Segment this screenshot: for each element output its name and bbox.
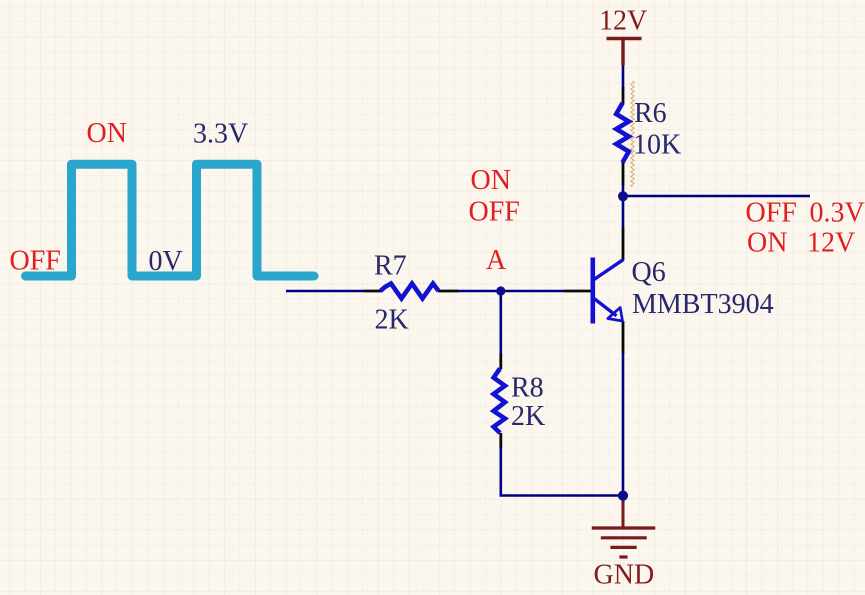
svg-text:OFF: OFF (746, 198, 797, 229)
svg-text:12V: 12V (599, 6, 647, 37)
svg-text:OFF: OFF (469, 197, 520, 228)
svg-text:ON: ON (747, 228, 787, 259)
svg-text:2K: 2K (375, 305, 409, 336)
svg-text:R6: R6 (634, 98, 667, 129)
svg-text:ON: ON (87, 118, 127, 149)
svg-text:0V: 0V (149, 246, 183, 277)
svg-text:R7: R7 (374, 251, 407, 282)
svg-text:Q6: Q6 (632, 257, 666, 288)
svg-text:0.3V: 0.3V (810, 198, 865, 229)
svg-text:GND: GND (594, 560, 655, 591)
svg-text:ON: ON (471, 165, 511, 196)
svg-text:R8: R8 (511, 372, 544, 403)
svg-text:2K: 2K (511, 401, 545, 432)
svg-text:10K: 10K (633, 130, 681, 161)
svg-text:MMBT3904: MMBT3904 (632, 289, 774, 320)
svg-text:3.3V: 3.3V (193, 119, 248, 150)
svg-text:OFF: OFF (10, 246, 61, 277)
svg-text:12V: 12V (807, 228, 855, 259)
svg-text:A: A (486, 245, 507, 276)
